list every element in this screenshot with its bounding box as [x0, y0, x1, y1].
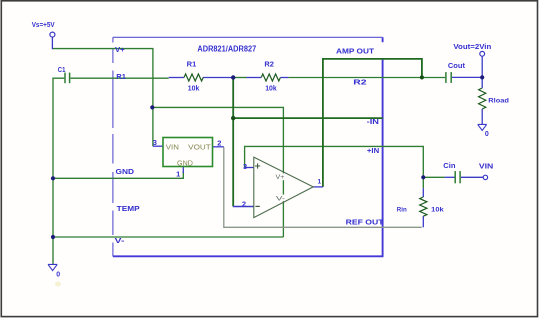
svg-text:-IN: -IN: [367, 119, 379, 126]
svg-text:V+: V+: [115, 47, 125, 54]
svg-text:VIN: VIN: [479, 164, 493, 171]
svg-text:Rload: Rload: [488, 98, 509, 105]
svg-text:10k: 10k: [431, 207, 444, 214]
svg-text:R1: R1: [187, 61, 197, 68]
svg-text:GND: GND: [116, 169, 135, 176]
svg-text:10k: 10k: [265, 86, 277, 93]
svg-text:R2: R2: [353, 78, 366, 87]
svg-text:Vs=+5V: Vs=+5V: [32, 22, 55, 29]
svg-text:2: 2: [242, 200, 246, 209]
svg-text:+IN: +IN: [367, 148, 379, 155]
svg-text:REF OUT: REF OUT: [346, 217, 385, 226]
svg-text:V-: V-: [115, 238, 126, 245]
svg-text:3: 3: [243, 162, 247, 171]
svg-text:2: 2: [217, 139, 221, 148]
svg-text:0: 0: [56, 272, 60, 279]
svg-text:TEMP: TEMP: [117, 206, 140, 213]
svg-text:VIN: VIN: [166, 145, 179, 152]
svg-text:Cout: Cout: [448, 63, 466, 70]
svg-text:Rin: Rin: [397, 206, 407, 213]
svg-text:GND: GND: [177, 160, 193, 167]
svg-text:0: 0: [485, 131, 489, 138]
svg-text:V-: V-: [276, 195, 285, 202]
svg-text:R1: R1: [116, 74, 126, 81]
svg-text:1: 1: [318, 179, 322, 186]
svg-text:10k: 10k: [188, 86, 200, 93]
svg-text:R2: R2: [264, 61, 274, 68]
svg-text:ADR821/ADR827: ADR821/ADR827: [197, 44, 256, 53]
svg-text:Cin: Cin: [443, 163, 455, 170]
svg-text:V+: V+: [276, 174, 285, 181]
svg-text:1: 1: [176, 169, 180, 178]
svg-text:VOUT: VOUT: [188, 145, 211, 152]
svg-text:3: 3: [153, 138, 157, 147]
svg-text:Vout=2Vin: Vout=2Vin: [453, 44, 491, 51]
svg-text:C1: C1: [58, 67, 66, 74]
svg-text:AMP OUT: AMP OUT: [336, 47, 375, 56]
